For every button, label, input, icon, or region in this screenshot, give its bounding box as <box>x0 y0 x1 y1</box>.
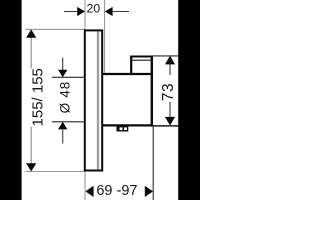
extension line 69-97 right <box>152 126 154 200</box>
front face edge <box>151 56 153 127</box>
left black border bar <box>0 0 22 200</box>
dimension 69-97 arrow right-pointing <box>145 186 153 197</box>
valve body top edge <box>102 73 151 75</box>
dimension d48 arrow up <box>58 122 67 130</box>
dimension 20 arrow right-pointing <box>77 7 85 16</box>
cap left edge <box>130 56 132 75</box>
connector tab window right <box>124 127 127 130</box>
extension line 155-top <box>25 28 84 30</box>
svg-text:69 -97: 69 -97 <box>96 183 137 199</box>
dimension d48 lower tail <box>62 129 64 144</box>
extension line 20-right <box>104 0 106 73</box>
extension line d48-bottom <box>52 121 85 123</box>
extension line 155-bottom <box>25 171 84 173</box>
extension line 73-top <box>153 55 179 57</box>
extension line 20-left <box>84 0 86 30</box>
svg-text:155/ 155: 155/ 155 <box>30 68 47 126</box>
svg-text:20: 20 <box>87 2 101 16</box>
dimension 73 lower segment <box>169 102 171 122</box>
dimension 155 arrow up <box>26 29 36 37</box>
dimension 69-97 arrow left-pointing <box>85 186 93 197</box>
connector tab block <box>117 125 129 132</box>
dimension 20 line left tail <box>64 11 78 13</box>
dimension 20 arrow left-pointing <box>105 7 113 16</box>
body bottom edge <box>102 124 153 126</box>
svg-text:73: 73 <box>160 83 177 101</box>
dimension d48 upper tail <box>62 58 64 71</box>
cap rim line <box>132 59 151 61</box>
dimension 20 line right tail <box>112 11 129 13</box>
dimension 73 arrow down <box>165 117 175 126</box>
dimension 73 arrow up <box>165 56 175 65</box>
dimension 155 line upper segment <box>30 33 32 69</box>
extension line 73-bottom <box>153 125 179 127</box>
right black border bar <box>178 0 200 200</box>
dimension 155 line lower segment <box>30 127 32 169</box>
dimension 155 arrow down <box>26 163 36 171</box>
dimension 73 upper segment <box>169 59 171 75</box>
wall plate inner shading line <box>97 32 99 170</box>
wall plate outline <box>85 30 102 170</box>
connector tab window left <box>120 127 123 130</box>
dimension d48 arrow down <box>58 70 67 78</box>
extension line d48-top <box>52 76 85 78</box>
cap top edge <box>130 56 153 58</box>
extension line 69-97 left <box>84 172 86 201</box>
svg-text:Ø 48: Ø 48 <box>58 81 73 113</box>
